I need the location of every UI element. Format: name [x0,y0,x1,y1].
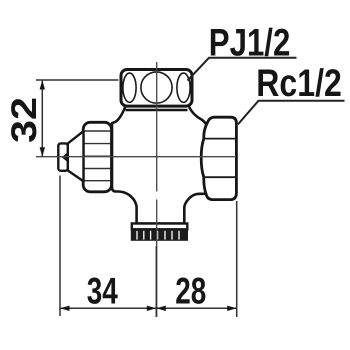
leader line PJ1/2 [188,58,297,81]
middle extension line [155,246,157,317]
svg-text:28: 28 [175,270,206,312]
top cap nut (PJ1/2 union nut) [121,70,192,107]
cap nut left ellipse [123,73,136,102]
hex nut (Rc1/2 socket) [201,117,236,199]
cap nut center circle [141,72,172,103]
dimension 32: top extension line [36,79,119,81]
vertical centerline [156,62,158,192]
handle cone [68,131,84,181]
arrowheads middle pair [147,306,157,311]
svg-text:Rc1/2: Rc1/2 [256,62,342,105]
knurl stripes on dark band [137,231,179,240]
stem slot mark on handle tip [62,152,68,163]
right extension line [236,201,238,317]
bottom outlet knurled dark band [131,229,188,241]
arrowhead right (28) [227,306,237,311]
svg-text:34: 34 [87,270,118,312]
dimension 32: top arrowhead [40,80,45,90]
dimension 32: vertical dimension line [41,80,43,157]
handle knurl lines [85,131,111,181]
arrowhead left (34) [60,306,70,311]
valve body outline [112,104,208,224]
handle knurled band [83,122,111,192]
left extension line [59,176,61,317]
horizontal centerline [36,156,236,158]
svg-text:PJ1/2: PJ1/2 [209,22,290,65]
nut flange line under cap nut [126,109,188,111]
bottom outlet cap upper lip [132,224,188,230]
leader line Rc1/2 [238,101,345,125]
svg-text:32: 32 [4,97,44,143]
hex nut division line lower [203,176,236,178]
cap nut right ellipse [177,73,190,102]
hex nut division line upper [203,138,236,140]
dimension 32: bottom arrowhead [40,147,45,157]
bottom dimension line [60,307,237,309]
handle tip cap [58,143,68,170]
